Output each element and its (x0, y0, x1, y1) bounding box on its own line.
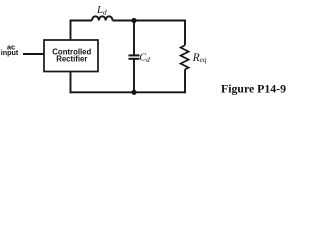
wire bottom rail (70, 91, 186, 93)
wire right branch lower (184, 69, 186, 93)
svg-text:Req: Req (192, 52, 207, 64)
wire box top stub (70, 21, 72, 41)
capacitor Cd top wire (133, 21, 135, 56)
controlled rectifier block U1 (44, 40, 98, 72)
node junction dot bottom (131, 90, 136, 95)
svg-text:Figure P14-9: Figure P14-9 (221, 81, 286, 95)
svg-text:Ld: Ld (96, 5, 107, 16)
capacitor Cd plates (129, 54, 140, 56)
wire box bottom stub (70, 72, 72, 94)
capacitor Cd bottom wire (133, 59, 135, 93)
inductor Ld coil (92, 16, 113, 20)
node junction dot top (131, 18, 136, 23)
wire right branch upper (184, 20, 186, 45)
wire top rail left segment (70, 20, 92, 22)
wire ac input lead (23, 53, 44, 55)
wire top rail right segment (113, 20, 186, 22)
resistor Req zigzag (181, 45, 189, 69)
svg-text:Cd: Cd (139, 53, 150, 65)
svg-text:Rectifier: Rectifier (56, 54, 87, 63)
svg-text:input: input (1, 48, 19, 57)
